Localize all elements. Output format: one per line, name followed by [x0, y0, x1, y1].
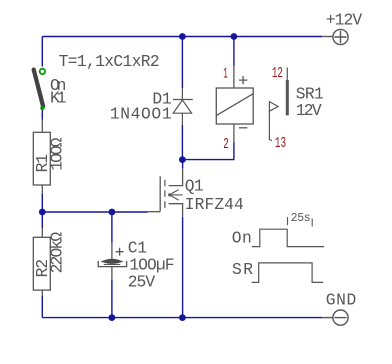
svg-text:25s: 25s [291, 212, 311, 225]
junction middle rail R1/R2 [39, 209, 46, 216]
svg-text:Q1: Q1 [185, 176, 204, 195]
junction bottom rail Q1 [179, 314, 186, 321]
wire relay top from top rail [233, 37, 235, 66]
resistor R1 [33, 120, 50, 195]
svg-text:1OOΩ: 1OOΩ [47, 137, 66, 170]
svg-text:C1: C1 [128, 238, 147, 257]
svg-text:T=1,1xC1xR2: T=1,1xC1xR2 [59, 52, 160, 71]
svg-text:2: 2 [223, 136, 229, 153]
wire C1 top [111, 212, 113, 243]
wire top-left vertical to switch [41, 37, 43, 67]
wire D1 cathode to node [181, 125, 183, 160]
timing ticks 25s [288, 217, 313, 226]
svg-text:22OkΩ: 22OkΩ [47, 232, 66, 274]
junction relay top [231, 33, 238, 40]
diode D1 [173, 88, 193, 125]
svg-text:12V: 12V [296, 101, 322, 120]
wire Q1 drain [182, 160, 184, 169]
junction middle rail C1 [109, 209, 116, 216]
ground terminal GND [322, 310, 348, 325]
relay coil K1 [216, 66, 253, 142]
svg-text:13: 13 [275, 135, 286, 152]
svg-text:On: On [232, 229, 252, 248]
svg-text:SR: SR [232, 260, 253, 279]
wire middle rail to R2 [41, 212, 43, 228]
svg-text:K1: K1 [50, 89, 66, 108]
switch K1 [34, 69, 45, 111]
wire C1 bottom [111, 280, 113, 318]
wire D1 anode from top rail [181, 37, 183, 89]
transistor Q1 [148, 169, 183, 217]
svg-text:+12V: +12V [326, 11, 363, 30]
svg-text:1: 1 [223, 66, 228, 83]
wire node to relay bottom [182, 142, 234, 159]
svg-text:IRFZ44: IRFZ44 [185, 195, 244, 214]
wire R2 to bottom rail [41, 295, 43, 317]
wire middle rail to gate [42, 211, 147, 213]
waveform On pulse [252, 229, 324, 246]
junction D1 top [179, 33, 186, 40]
supply terminal +12V [322, 29, 348, 44]
waveform SR pulse [252, 263, 324, 283]
wire R1 to middle rail [41, 194, 43, 212]
capacitor C1 [98, 243, 126, 280]
resistor R2 [33, 228, 50, 295]
wire bottom rail GND net [42, 317, 322, 319]
junction bottom rail C1 [109, 314, 116, 321]
wire top rail +12V net [42, 36, 322, 38]
svg-text:1N4OO1: 1N4OO1 [110, 105, 172, 124]
svg-text:25V: 25V [128, 273, 156, 292]
relay contact SR1 [269, 67, 287, 140]
junction D1/relay/Q1 node [179, 156, 186, 163]
wire switch to R1 [41, 110, 43, 120]
svg-text:12: 12 [272, 65, 283, 82]
wire Q1 source to bottom rail [182, 217, 184, 318]
svg-text:GND: GND [326, 291, 357, 310]
